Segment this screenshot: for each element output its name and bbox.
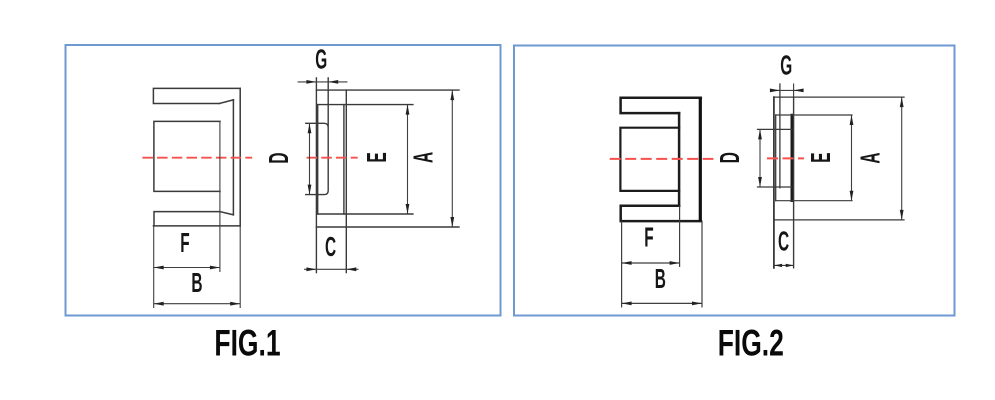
svg-text:A: A <box>408 152 439 163</box>
fig2 right inner left edge <box>775 115 777 201</box>
fig2 right outer right edge + C extension <box>793 97 795 268</box>
fig1 right outer right edge + C extension <box>345 90 347 272</box>
dimension G fig2 <box>770 50 804 93</box>
frame box FIG.1 <box>66 45 501 316</box>
fig2 capsule bottom edge <box>758 186 792 188</box>
fig1 window right inner edge <box>343 105 345 214</box>
fig1 window bottom edge <box>318 213 413 215</box>
fig2 window bottom edge <box>776 200 852 202</box>
fig2 right outline bottom edge <box>774 219 904 221</box>
svg-text:FIG.1: FIG.1 <box>214 322 280 364</box>
dimension B fig2 <box>622 263 702 305</box>
fig2 G right extension above <box>793 84 795 97</box>
svg-text:E: E <box>361 152 392 162</box>
dimension D fig2 <box>714 129 762 187</box>
ext line F right <box>679 206 681 267</box>
svg-text:F: F <box>180 227 189 258</box>
dimension A fig1 <box>408 90 454 227</box>
ext line B right <box>701 221 703 307</box>
fig1 right inner left edge <box>317 105 319 214</box>
dimension F fig1 <box>154 227 220 269</box>
frame box FIG.2 <box>514 46 955 316</box>
fig1 extension lines (left view) <box>154 121 241 308</box>
fig2 G extension / capsule left edge <box>779 84 781 188</box>
ext line left <box>621 221 623 307</box>
svg-text:B: B <box>191 267 202 298</box>
dimension G fig1 <box>298 44 348 84</box>
svg-text:FIG.2: FIG.2 <box>718 322 784 364</box>
dimension D fig1 <box>263 123 311 194</box>
fig2 spine right edge <box>699 98 702 221</box>
svg-text:D: D <box>263 152 294 163</box>
svg-text:C: C <box>325 231 336 262</box>
svg-text:G: G <box>780 50 792 81</box>
svg-text:E: E <box>805 152 836 162</box>
fig1 spine right edge <box>239 88 241 226</box>
dimension C fig2 <box>774 226 794 267</box>
svg-text:B: B <box>655 263 666 294</box>
fig1 top chamfer <box>219 100 233 104</box>
ext line F right / leg edge <box>219 121 221 272</box>
fig2 top arm <box>621 98 701 113</box>
fig1 capsule slot <box>306 78 328 195</box>
fig2 center leg <box>620 128 679 191</box>
fig2 centerline left <box>610 158 714 160</box>
fig2 spine inner edge <box>678 113 681 206</box>
fig1 bottom chamfer <box>220 212 234 215</box>
fig2 bottom arm <box>621 206 701 221</box>
fig1 spine inner edge <box>232 100 234 215</box>
dimension A fig2 <box>855 97 904 220</box>
fig1 right outline top edge <box>316 89 459 91</box>
svg-text:C: C <box>778 226 789 257</box>
fig1 centerline right <box>307 157 358 159</box>
svg-text:A: A <box>855 152 886 163</box>
fig1 center leg <box>154 121 220 191</box>
fig2 window top edge <box>776 114 852 116</box>
svg-text:F: F <box>644 222 653 253</box>
fig1 window top edge <box>318 104 413 106</box>
dimension B fig1 <box>154 267 241 305</box>
fig2 centerline right <box>767 157 804 159</box>
dimension C fig1 <box>304 231 359 271</box>
fig1 right outline bottom edge <box>316 226 459 228</box>
fig1 bottom arm <box>153 212 240 226</box>
fig2 right outline top edge <box>774 96 904 98</box>
fig2 extension lines (left view) <box>622 206 702 308</box>
fig1 top arm <box>153 88 240 103</box>
ext line B right <box>239 226 241 308</box>
svg-text:G: G <box>315 44 327 75</box>
ext line left <box>153 226 155 308</box>
fig2 right outer left edge + C extension <box>773 97 775 268</box>
fig2 window right inner edge (bold) <box>790 115 793 201</box>
fig1 right outer left edge + G/C extensions <box>315 78 317 273</box>
dimension E fig2 <box>805 115 853 201</box>
fig1 centerline left <box>142 157 252 159</box>
dimension F fig2 <box>622 222 680 265</box>
dimension E fig1 <box>361 105 409 214</box>
fig2 capsule top edge <box>758 128 792 130</box>
svg-text:D: D <box>714 152 745 163</box>
